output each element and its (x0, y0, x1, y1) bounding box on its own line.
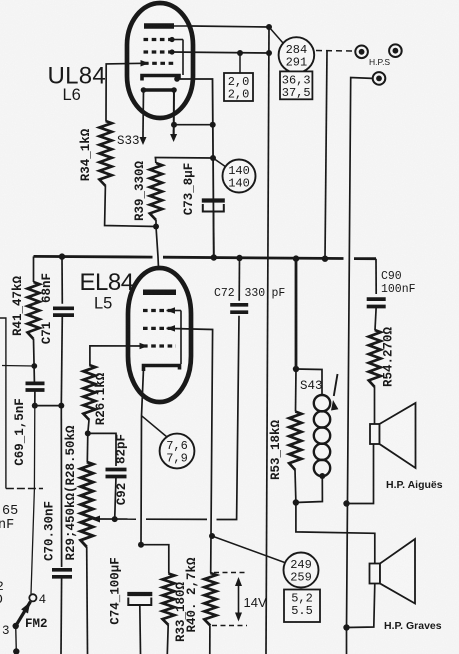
node bus C71 (59, 253, 65, 259)
wire C73 bottom (213, 212, 215, 255)
wire grid1 UL84 left (106, 63, 144, 121)
wire C71 bottom (61, 315, 62, 405)
wire C70 link (60, 406, 62, 567)
meter callout 284/291 (279, 37, 315, 73)
callout box 5,2/5.5 (284, 590, 320, 623)
annotation 14V bottom dash (212, 625, 247, 627)
speaker HP Graves cone (380, 539, 415, 604)
label FM2 (25, 617, 48, 631)
node stub to box 2,0 (237, 50, 243, 73)
resistor R54 270Ω (369, 330, 381, 387)
wire stub left edge (2, 365, 34, 368)
resistor R40 2,7kΩ (204, 573, 216, 626)
label R34 1kΩ (79, 128, 93, 181)
dash-dot wire to HPS (316, 50, 353, 53)
node coil bottom (319, 473, 325, 479)
node wiper C92 (112, 516, 118, 522)
label C72 330 pF (214, 287, 285, 300)
wire FM2 exit (15, 652, 17, 654)
inductor coil S43 (314, 395, 330, 476)
annotation 14V arrow (235, 577, 242, 622)
wire R53 bottom (294, 470, 297, 503)
switch FM2 blade (16, 602, 31, 627)
wire to C92 (88, 433, 116, 466)
node vertical B Graves (343, 624, 349, 630)
node heater branch (171, 122, 177, 128)
wire cathode UL84 right (177, 79, 214, 258)
bus wire horizontal segment 3 (354, 257, 376, 260)
wire callout to meter 249 (212, 536, 286, 563)
wire C69 bottom (34, 390, 36, 406)
label 14V (244, 595, 267, 610)
resistor R39 330Ω (150, 163, 162, 220)
capacitor C72 330pF (230, 305, 248, 312)
label UL84 (48, 63, 107, 90)
capacitor C69 1,5nF (26, 383, 45, 390)
bus wire horizontal segment 1 (34, 255, 153, 259)
wire junction to EL84 anode (156, 227, 160, 291)
wire left edge bottom dashed (6, 488, 43, 490)
node R34/R39 junction (153, 224, 159, 230)
node C70 top (58, 403, 64, 409)
label R29 450kΩ / R28 50kΩ (64, 425, 78, 561)
wire C69 to FM2 switch (31, 406, 35, 594)
wire anode UL84 to node (192, 26, 269, 27)
node callout 249 junction (209, 533, 215, 539)
wire wiper segment 3 (217, 316, 240, 520)
wire R29 bottom (86, 547, 89, 654)
label HP Graves (384, 620, 442, 632)
callout box 2,0/2,0 (224, 73, 253, 102)
label R53 18kΩ (269, 419, 283, 480)
label 3 (2, 624, 10, 638)
label R41 47kΩ (11, 275, 25, 336)
wire callout to meter 7,6 (142, 416, 168, 437)
node bus C72 (236, 255, 242, 261)
wire wiper segment 2 (146, 518, 207, 520)
label C90 100nF (381, 270, 416, 296)
node grid2 line junction (266, 50, 272, 56)
wire C90 to R54 (375, 307, 376, 331)
capacitor C92 82pF (106, 470, 127, 477)
connector HPS 1 (355, 46, 368, 59)
wire C69-C71 link (35, 405, 62, 407)
wire vertical main bus right (266, 27, 269, 654)
label C73 8µF (182, 163, 196, 216)
switch FM2 contact 4 (29, 594, 36, 601)
callout box 36,3/37,5 (280, 71, 312, 100)
wire left edge component (0, 318, 6, 489)
wire R29 top (86, 433, 89, 462)
wire cathode EL84 down (141, 369, 144, 545)
wire HPS3 to vertical (347, 78, 373, 630)
resistor R29 450kΩ potentiometer (81, 462, 93, 547)
node bus C73 line (211, 254, 217, 260)
node C73 top junction (210, 155, 216, 161)
label R40 2,7kΩ (185, 557, 199, 633)
label R39 330Ω (133, 160, 147, 221)
meter callout 7,6/7,9 (160, 434, 195, 469)
wiper arrow R29 (91, 516, 100, 523)
switch FM2 contact 3 (13, 623, 19, 629)
wire heater left S33 pin (140, 90, 147, 145)
partial glyphs left edge (0, 579, 4, 607)
connector HPS 2 (389, 44, 402, 57)
wire grid1 EL84 left (90, 346, 142, 365)
connector HPS 3 (373, 72, 386, 85)
wire R53 top (295, 369, 298, 412)
capacitor C70 30nF (52, 570, 72, 577)
annotation 14V top dash (214, 572, 247, 574)
wire vertical B exit (346, 628, 348, 654)
capacitor C74 100µF (127, 594, 152, 605)
wire C92 bottom (115, 477, 116, 520)
label R33 180Ω (174, 581, 188, 642)
node FM2 bottom (13, 648, 19, 654)
wire branch to R33 (141, 545, 169, 574)
label C70 30nF (43, 501, 57, 561)
capacitor C71 68nF (53, 308, 74, 315)
speaker HP Aigues cone (380, 403, 416, 468)
node S43 top (293, 366, 299, 372)
node bus S43 branch (293, 255, 299, 261)
resistor R34 1kΩ (99, 121, 111, 186)
wire grid2 UL84 to right (172, 52, 269, 53)
wire HP Graves bottom (347, 584, 375, 628)
label EL84 (80, 269, 134, 296)
wire callout to meter 140 (213, 158, 226, 167)
label 65 nF (0, 504, 18, 533)
wire to coil top (296, 369, 322, 395)
wire R34 bottom (105, 186, 156, 227)
node cathode branch (138, 542, 144, 548)
resistor R53 18kΩ (289, 412, 301, 471)
speaker HP Graves driver (370, 564, 381, 584)
wire R39 top (155, 158, 214, 164)
wire bus corner to C90 (375, 259, 377, 294)
label C69 1,5nF (13, 398, 27, 466)
wire heater branch (174, 124, 213, 126)
label L6 (63, 86, 81, 104)
node R53/coil junction (293, 499, 299, 505)
wire heater right pin (170, 90, 177, 142)
wire R33 bottom (166, 625, 169, 654)
wire HP Aigues bottom (347, 444, 374, 504)
wire R40 bottom (209, 626, 211, 654)
label S33 (117, 134, 140, 148)
wire R54 to speaker (374, 387, 376, 424)
resistor R26 1kΩ (83, 365, 95, 420)
wire coil bottom (296, 476, 323, 503)
wire wiper segment 1 (95, 518, 136, 520)
wire bus to R41 (33, 256, 35, 282)
bus wire horizontal segment 2 (163, 257, 344, 258)
label S43 (300, 379, 323, 393)
resistor R41 47kΩ (28, 282, 40, 339)
node junction anode top (266, 24, 272, 30)
wire C74 bottom (139, 605, 142, 654)
wire to HP Graves top (296, 503, 375, 564)
wire callout to meter 284 (269, 27, 283, 43)
wire R26 bottom (88, 420, 89, 433)
wire grid2 EL84 to R40 (167, 328, 213, 573)
label C92 82pF (115, 434, 130, 505)
capacitor C73 8µF (202, 201, 225, 212)
node C69 bottom (32, 403, 38, 409)
tube UL84 (pentode L6) (127, 3, 193, 118)
wire R41 bottom (33, 339, 36, 382)
label 4 (39, 593, 47, 607)
label C74 100µF (109, 557, 123, 625)
label HP Aigues (386, 479, 443, 491)
wire bus to S43 branch (295, 259, 298, 369)
speaker HP Aigues driver (370, 424, 380, 444)
node R41/C69 stub (31, 363, 37, 369)
wire C70 bottom (60, 577, 63, 654)
label R26 1kΩ (94, 372, 108, 425)
meter callout 249/259 (284, 553, 319, 588)
wire bus to C72 (238, 258, 240, 301)
resistor R33 180Ω (163, 574, 175, 626)
wire bus to C71 (61, 257, 63, 304)
node on cathode line (210, 122, 216, 128)
meter callout 140/140 (223, 160, 256, 193)
node R26/R29/C92 (85, 430, 91, 436)
label L5 (94, 295, 112, 313)
arrow S43 (331, 374, 338, 411)
label C71 68nF (40, 273, 54, 344)
wire FM2 down (15, 626, 18, 651)
label HPS (369, 57, 390, 67)
wire vertical A from HPS dash (325, 51, 327, 259)
wire R39 bottom (155, 220, 157, 227)
node bus vertical A (322, 256, 328, 262)
node vertical B Aigues (343, 500, 349, 506)
label R54 270Ω (382, 326, 396, 387)
capacitor C90 100nF (367, 299, 386, 306)
tube EL84 (pentode L5) (128, 268, 191, 402)
